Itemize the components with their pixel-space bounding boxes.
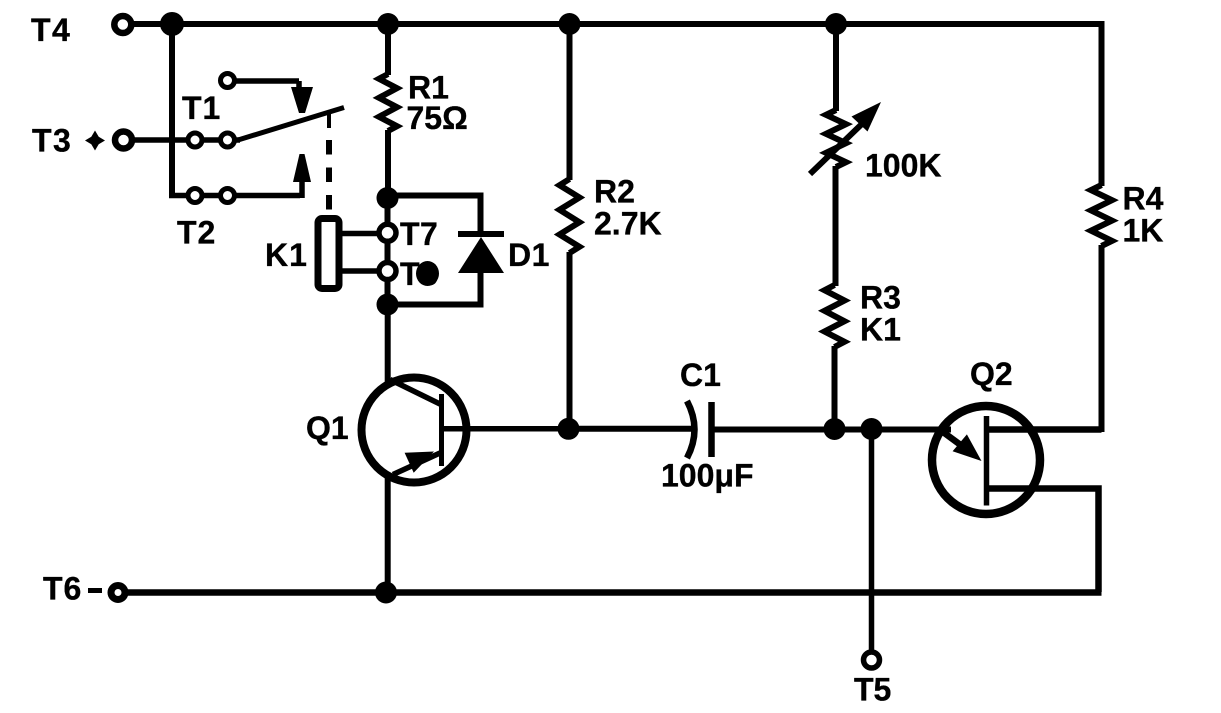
svg-text:Q2: Q2 bbox=[970, 356, 1013, 392]
svg-text:T7: T7 bbox=[400, 216, 438, 252]
svg-text:R3: R3 bbox=[860, 280, 901, 316]
svg-text:T4: T4 bbox=[31, 12, 71, 48]
svg-text:100K: 100K bbox=[865, 148, 942, 184]
svg-text:T3: T3 bbox=[32, 123, 72, 159]
svg-text:R2: R2 bbox=[594, 174, 635, 210]
svg-text:T5: T5 bbox=[854, 672, 891, 708]
svg-text:K1: K1 bbox=[860, 312, 901, 348]
svg-text:1K: 1K bbox=[1123, 213, 1164, 249]
svg-text:100μF: 100μF bbox=[661, 458, 754, 494]
svg-text:Q1: Q1 bbox=[306, 410, 349, 446]
svg-text:T1: T1 bbox=[182, 90, 221, 126]
svg-text:D1: D1 bbox=[508, 237, 550, 273]
svg-text:C1: C1 bbox=[680, 357, 721, 393]
svg-text:K1: K1 bbox=[265, 237, 308, 273]
svg-text:T6: T6 bbox=[43, 571, 82, 607]
svg-text:2.7K: 2.7K bbox=[594, 206, 662, 242]
svg-text:R4: R4 bbox=[1123, 181, 1164, 217]
svg-text:T2: T2 bbox=[177, 215, 216, 251]
svg-text:75Ω: 75Ω bbox=[407, 100, 468, 136]
